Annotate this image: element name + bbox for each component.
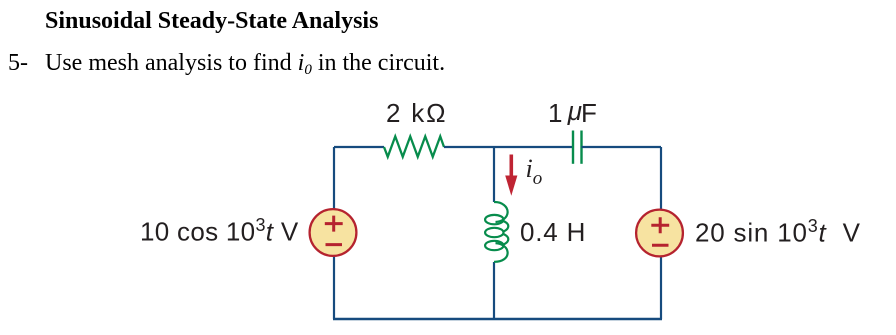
capacitor C 1uF right plate <box>580 131 582 164</box>
voltage source V2 minus sign <box>652 244 669 247</box>
wire top-right horizontal <box>582 146 662 148</box>
inductor L 0.4H loop 1 <box>485 215 503 224</box>
inductor L 0.4H entry arc <box>494 202 508 222</box>
voltage source V1 minus sign <box>326 243 343 246</box>
current arrow i_o head <box>505 176 517 196</box>
label source voltage 20 sin 10^3 t V <box>695 217 861 246</box>
label resistor value 2 kOhm <box>386 100 447 126</box>
inductor L 0.4H loop 2 <box>485 228 503 237</box>
wire right vertical lower <box>660 256 662 319</box>
wire right vertical upper <box>660 147 662 210</box>
wire middle vertical lower <box>493 262 495 319</box>
resistor R 2kOhm zigzag <box>384 136 444 156</box>
title: Sinusoidal Steady-State Analysis <box>45 8 378 35</box>
problem number 5- <box>8 50 28 77</box>
voltage source V2 circle (20 sin) <box>636 210 683 257</box>
problem text <box>45 50 445 79</box>
wire top-left horizontal <box>334 146 384 148</box>
wire bottom horizontal <box>333 318 662 320</box>
label source voltage 10 cos 10^3 t V <box>140 216 298 245</box>
label capacitor value 1 uF <box>548 100 596 126</box>
label inductor value 0.4 H <box>520 219 586 245</box>
label current i_o <box>526 154 543 190</box>
wire top-middle horizontal <box>444 146 573 148</box>
wire left vertical upper <box>333 147 335 209</box>
inductor L 0.4H turn arc 1-2 <box>503 221 508 232</box>
wire middle vertical upper <box>493 146 495 202</box>
inductor L 0.4H turn arc 2-3 <box>503 234 508 245</box>
voltage source V2 plus sign <box>651 217 669 233</box>
inductor L 0.4H loop 3 <box>485 241 503 250</box>
inductor L 0.4H exit arc <box>494 243 508 262</box>
capacitor C 1uF left plate <box>572 131 574 164</box>
voltage source V1 plus sign <box>325 216 343 232</box>
current arrow i_o shaft <box>509 155 513 178</box>
wire left vertical lower <box>333 256 335 319</box>
voltage source V1 circle (10 cos) <box>310 209 357 256</box>
